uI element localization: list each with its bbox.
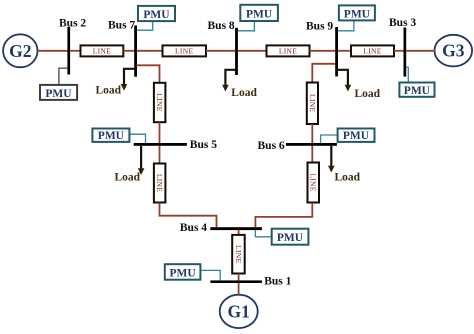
svg-text:G3: G3	[442, 41, 465, 61]
svg-text:Bus 5: Bus 5	[190, 139, 217, 151]
wire Bus 9 to LINE box D	[338, 50, 351, 52]
wire LINE V3 to Bus 6	[311, 124, 313, 143]
bus bar Bus 4	[210, 227, 262, 230]
wire Bus 1 to G1	[238, 283, 240, 295]
PMU box (Bus 8)	[240, 5, 278, 21]
bus bar Bus 3	[404, 28, 407, 77]
PMU box (Bus 9)	[339, 5, 375, 20]
wire Bus 7 down-branch horizontal	[137, 65, 160, 83]
wire LINE box A to Bus 7	[123, 50, 134, 52]
PMU connector (Bus 3)	[406, 67, 408, 82]
PMU box (Bus 7)	[138, 6, 175, 21]
svg-text:Load: Load	[355, 88, 381, 100]
svg-text:PMU: PMU	[343, 130, 370, 142]
transmission line box LINE (Bus2-Bus7)	[81, 45, 124, 56]
bus bar Bus 1	[210, 280, 262, 283]
wire LINE box C to Bus 9	[310, 50, 336, 52]
svg-text:LINE: LINE	[309, 173, 318, 191]
svg-text:PMU: PMU	[404, 85, 431, 97]
svg-text:G2: G2	[9, 41, 31, 61]
bus bar Bus 5	[134, 143, 187, 146]
svg-text:LINE: LINE	[175, 47, 193, 56]
svg-text:PMU: PMU	[143, 9, 170, 21]
wire Bus 6 down to LINE V4	[311, 146, 313, 163]
line model box LINE (Bus5-Bus4)	[154, 164, 166, 203]
svg-text:PMU: PMU	[45, 88, 72, 100]
svg-text:Bus 4: Bus 4	[180, 222, 207, 234]
svg-text:LINE: LINE	[155, 174, 164, 192]
PMU connector (Bus 5)	[129, 134, 145, 143]
PMU connector (Bus 1)	[200, 270, 220, 280]
PMU box (Bus 4)	[272, 229, 309, 245]
PMU box (Bus 1)	[165, 264, 201, 280]
bus bar Bus 7	[134, 26, 137, 77]
bus bar Bus 6	[286, 143, 337, 146]
line model box LINE (Bus7-Bus5)	[154, 83, 166, 122]
load arrow (Bus 9)	[337, 70, 352, 92]
transmission line box LINE (Bus9-Bus3)	[351, 45, 394, 56]
svg-text:G1: G1	[228, 302, 250, 322]
load arrow (Bus 6)	[328, 146, 335, 173]
svg-text:LINE: LINE	[308, 94, 317, 112]
line model box LINE (Bus9-Bus6)	[307, 83, 318, 125]
svg-text:Bus 7: Bus 7	[108, 20, 135, 32]
svg-text:Bus 1: Bus 1	[264, 276, 291, 288]
svg-text:Bus 3: Bus 3	[389, 17, 416, 29]
PMU connector (Bus 6)	[321, 135, 338, 143]
svg-text:Load: Load	[115, 172, 141, 184]
transmission line box LINE (Bus7-Bus8)	[163, 45, 207, 56]
wire Bus 5 down to LINE V2	[159, 146, 161, 164]
wire LINE V2 to Bus 4	[160, 203, 217, 228]
wire LINE box D to Bus 3	[394, 50, 404, 52]
svg-text:LINE: LINE	[93, 47, 111, 56]
wire Bus 4 down to LINE V5	[238, 230, 240, 235]
svg-text:LINE: LINE	[155, 93, 164, 111]
load arrow (Bus 5)	[138, 146, 145, 175]
bus bar Bus 9	[335, 27, 338, 76]
wire LINE V1 to Bus 5	[159, 122, 161, 143]
wire Bus 2 to LINE box A	[70, 50, 81, 52]
wire LINE box B to Bus 8	[206, 50, 235, 52]
line model box LINE (Bus4-Bus1)	[232, 235, 245, 274]
PMU box (Bus 2)	[40, 85, 77, 100]
svg-text:LINE: LINE	[279, 47, 297, 56]
svg-text:Bus 9: Bus 9	[306, 21, 333, 33]
wire G2 to Bus 2	[38, 50, 68, 52]
transmission line box LINE (Bus8-Bus9)	[267, 45, 310, 56]
svg-text:PMU: PMU	[277, 232, 304, 244]
svg-text:Bus 2: Bus 2	[59, 18, 86, 30]
load arrow (Bus 8)	[222, 70, 236, 92]
svg-text:PMU: PMU	[344, 8, 371, 20]
PMU box (Bus 3)	[399, 83, 434, 97]
generator G1	[220, 295, 258, 328]
wire LINE V4 to Bus 4	[255, 203, 312, 228]
svg-text:PMU: PMU	[98, 130, 125, 142]
svg-text:LINE: LINE	[363, 47, 381, 56]
bus bar Bus 8	[235, 28, 238, 75]
svg-text:Load: Load	[231, 87, 257, 99]
PMU connector (Bus 7)	[137, 21, 153, 30]
generator G3	[435, 35, 473, 67]
wire LINE V5 to Bus 1	[238, 274, 240, 281]
load arrow (Bus 7)	[121, 69, 136, 91]
svg-text:PMU: PMU	[246, 8, 273, 20]
bus bar Bus 2	[67, 27, 70, 75]
svg-text:Bus 8: Bus 8	[208, 20, 235, 32]
PMU connector (Bus 2)	[59, 68, 68, 85]
line model box LINE (Bus6-Bus4)	[308, 163, 320, 203]
PMU connector (Bus 9)	[338, 20, 354, 30]
PMU connector (Bus 4)	[255, 230, 271, 237]
wire Bus 7 to LINE box B	[137, 50, 163, 52]
wire Bus 3 to G3	[406, 50, 435, 52]
PMU box (Bus 6)	[338, 129, 375, 143]
svg-text:Bus 6: Bus 6	[258, 140, 285, 152]
generator G2	[3, 34, 37, 67]
svg-text:LINE: LINE	[234, 245, 243, 263]
svg-text:PMU: PMU	[170, 267, 197, 279]
svg-text:Load: Load	[96, 85, 122, 97]
svg-text:Load: Load	[335, 172, 361, 184]
wire Bus 9 down-branch horizontal	[312, 64, 335, 83]
PMU connector (Bus 8)	[238, 21, 254, 31]
wire Bus 8 to LINE box C	[238, 50, 267, 52]
PMU box (Bus 5)	[92, 129, 129, 143]
